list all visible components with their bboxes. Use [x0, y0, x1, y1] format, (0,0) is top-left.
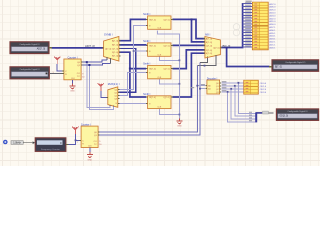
wire: register R2 Q to mux U2 pin D2 (bus) [172, 44, 205, 46]
svg-text:B[7..0]: B[7..0] [223, 44, 231, 48]
junctions clock tree [179, 59, 181, 61]
junction on output bus [226, 47, 228, 49]
svg-text:OD3.0: OD3.0 [260, 92, 267, 94]
decorative ghost marker [233, 24, 239, 30]
svg-text:A[7..0]: A[7..0] [206, 38, 212, 41]
wire: register R3 Q to mux U2 pin D3 (bus) [172, 50, 205, 69]
svg-text:Decoder I: Decoder I [207, 77, 218, 80]
svg-text:AD0.1: AD0.1 [269, 46, 276, 49]
mux U2 (trapezoid, inputs left) [205, 37, 221, 59]
svg-text:Frequency Counter: Frequency Counter [41, 148, 60, 151]
svg-text:CO: CO [77, 73, 81, 75]
svg-text:C[7..0]: C[7..0] [112, 48, 119, 50]
svg-text:CLK: CLK [157, 77, 162, 79]
svg-text:AD3.0: AD3.0 [269, 14, 276, 17]
clock flag CLK3 [72, 127, 78, 135]
wire: pill to frequency counter with arrow [23, 142, 32, 144]
connector P1 Configurable Digital IO (left top) [10, 42, 49, 54]
svg-text:AD[7..0]: AD[7..0] [85, 44, 95, 48]
wire: bus from connector P1 to mux U1 output [52, 47, 104, 49]
svg-text:OD1.0: OD1.0 [260, 86, 267, 88]
svg-text:AD0.0: AD0.0 [269, 23, 276, 26]
svg-text:Counter I: Counter I [81, 123, 91, 126]
wire: register R1 Q to mux U2 pin D0 (bus) [172, 19, 205, 38]
svg-text:Counter I: Counter I [68, 56, 78, 59]
svg-text:Configurable Digital IO: Configurable Digital IO [285, 61, 306, 64]
clock tree: registers CLK chain [158, 30, 180, 118]
connector P4 Configurable Digital IO (right bottom) [276, 109, 318, 121]
svg-text:GND: GND [87, 159, 92, 161]
register R2 [148, 43, 171, 56]
junction: write bus to R3 [129, 68, 131, 70]
ground for clock tree [178, 118, 180, 121]
svg-text:CO: CO [94, 141, 98, 143]
ground for U3 [71, 83, 73, 86]
register R3 [148, 65, 171, 78]
svg-text:Q[7..0]: Q[7..0] [163, 20, 169, 22]
LED bank x4 (decoder outputs) [244, 80, 258, 94]
svg-text:AD4.0: AD4.0 [269, 12, 276, 15]
svg-text:1.0kHz: 1.0kHz [13, 142, 21, 145]
svg-text:AD1.1: AD1.1 [269, 43, 276, 46]
svg-text:D[7..0]: D[7..0] [112, 52, 119, 54]
bus taps to 16 LED indicators [243, 4, 253, 48]
svg-text:E[7..0]: E[7..0] [206, 53, 212, 55]
demux U5 (trapezoid, outputs right) [108, 87, 118, 108]
svg-text:GND: GND [177, 126, 182, 128]
instrument: frequency counter [35, 138, 66, 152]
svg-text:Q[7..0]: Q[7..0] [163, 46, 169, 48]
svg-text:Q[7..0]: Q[7..0] [163, 97, 169, 99]
net label OD4 [263, 111, 269, 114]
decoder U4 [207, 80, 220, 94]
svg-text:TC: TC [77, 76, 80, 78]
mux U1 (trapezoid, inputs right) [104, 37, 119, 62]
connector P2 Configurable Digital IO (left bottom) [10, 67, 49, 79]
svg-text:OD0.0: OD0.0 [260, 83, 267, 85]
label: frequency value pill [11, 141, 23, 145]
counter U6 (bottom) [81, 126, 98, 147]
wire branches into decoder U4 inputs [197, 85, 205, 87]
wire: connector P2 to counter U3 clock pin [50, 73, 62, 75]
junction S0 [86, 61, 88, 63]
svg-text:AD1.0: AD1.0 [269, 20, 276, 23]
counter U3 [64, 59, 81, 80]
svg-text:GND: GND [70, 91, 75, 93]
enable net wires from demux U5 to register E pins [118, 25, 146, 89]
svg-text:Q[7..0]: Q[7..0] [213, 48, 220, 50]
svg-text:AD[7..0]: AD[7..0] [37, 48, 46, 51]
svg-text:E[7..0]: E[7..0] [112, 56, 118, 58]
svg-text:AD5.1: AD5.1 [269, 32, 276, 35]
svg-text:AD6.0: AD6.0 [269, 6, 276, 9]
svg-text:Q[7..0]: Q[7..0] [163, 69, 169, 71]
svg-text:AD6.1: AD6.1 [269, 29, 276, 32]
clock flag CLK2 [98, 83, 104, 91]
svg-text:AD5.0: AD5.0 [269, 9, 276, 12]
wire: register R4 Q to mux U2 pin D4 (bus) [172, 53, 205, 97]
svg-text:IN[7..0]: IN[7..0] [149, 69, 156, 71]
icon: probe dot [3, 140, 8, 145]
svg-text:Smth I: Smth I [143, 40, 151, 43]
svg-text:MX I: MX I [205, 33, 210, 36]
svg-text:AD7.0: AD7.0 [269, 3, 276, 6]
junction S1 [88, 64, 90, 66]
ground for U6 [89, 152, 91, 155]
svg-text:B[7..0]: B[7..0] [275, 67, 282, 69]
bus collector bar for connector P4 [255, 112, 257, 122]
LED stack x16 (bus indicators) [252, 2, 268, 50]
wire: mux U1 pin D to register R3 IN and R4 IN (bus) [119, 52, 146, 97]
wire: counter U3 Q1 to mux selects (S1) [82, 64, 111, 65]
svg-text:CLK: CLK [157, 107, 162, 109]
svg-text:AD2.0: AD2.0 [269, 17, 276, 20]
svg-text:OD[3..0]: OD[3..0] [279, 116, 288, 118]
wire: clock flag CLK1 to counter U3 [57, 64, 62, 71]
svg-text:A[7..0]: A[7..0] [112, 40, 118, 43]
wire: mux U1 pin B to register R2 IN (bus) [119, 44, 147, 46]
svg-text:TC: TC [94, 144, 97, 146]
svg-text:Smth I: Smth I [143, 13, 151, 16]
wire: clock flag CLK2 to demux U5 input [101, 90, 108, 97]
svg-text:Configurable Digital IO: Configurable Digital IO [287, 110, 308, 113]
connector P3 Configurable Digital IO (right middle) [272, 60, 319, 72]
net labels on decoder wires [222, 81, 227, 82]
wire: mux U2 output bus B[7..0] to LED stack and connector P3 [220, 3, 242, 48]
svg-text:Smth I: Smth I [143, 63, 151, 66]
register R1 [148, 16, 171, 29]
svg-text:Q[7..0]: Q[7..0] [105, 48, 112, 50]
wire: counter U3 Q0 to mux selects (S0) [82, 60, 107, 62]
svg-text:OD2.0: OD2.0 [260, 89, 267, 91]
svg-text:CLK: CLK [157, 54, 162, 56]
svg-text:IN[7..0]: IN[7..0] [149, 20, 156, 22]
clock flag CLK1 [54, 57, 60, 65]
svg-text:AD4.1: AD4.1 [269, 35, 276, 38]
junction on R1 Q bus [191, 18, 193, 20]
svg-text:Configurable Digital IO: Configurable Digital IO [20, 68, 41, 71]
svg-text:CLK: CLK [157, 27, 162, 29]
svg-text:AD7.1: AD7.1 [269, 26, 276, 29]
wire: branch of R1 Q bus to mux U2 pin D1 [192, 19, 205, 42]
wires: decoder U4 outputs to LED bank and connector P4 [221, 82, 243, 84]
tap net labels [245, 2, 251, 3]
svg-text:IN[7..0]: IN[7..0] [149, 97, 156, 99]
svg-text:B[7..0]: B[7..0] [206, 42, 212, 44]
svg-text:IN[7..0]: IN[7..0] [149, 46, 156, 48]
wires: counter U6 outputs up to decoder U4 and mux U2 selects [99, 66, 198, 132]
svg-text:B[7..0]: B[7..0] [112, 45, 118, 47]
svg-text:D[7..0]: D[7..0] [206, 50, 213, 52]
svg-text:SYMB I: SYMB I [104, 33, 113, 36]
svg-text:AD2.1: AD2.1 [269, 41, 276, 44]
svg-text:Smth I: Smth I [143, 93, 151, 96]
svg-text:MUX(2:1) I: MUX(2:1) I [108, 83, 120, 86]
wire: mux U1 pin A to register R1 IN (bus) [119, 19, 146, 40]
svg-text:AD3.1: AD3.1 [269, 38, 276, 41]
svg-text:Configurable Digital IO: Configurable Digital IO [19, 43, 40, 46]
wire: mux U1 pin C down to demux area [118, 48, 135, 92]
register R4 [148, 96, 171, 109]
svg-text:C[7..0]: C[7..0] [206, 45, 213, 47]
wire: clock flag CLK3 to frequency counter and counter U6 [68, 134, 75, 144]
